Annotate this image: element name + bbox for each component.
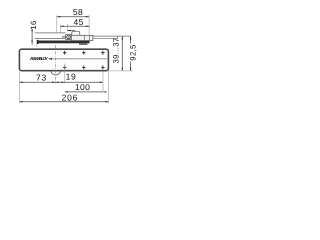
rod end tick [117,36,119,39]
svg-text:39...37: 39...37 [111,38,120,64]
link nub left of knob [63,36,66,39]
mounting hole cross top-middle [82,51,85,55]
ext line 206 right [108,71,110,103]
mini dim extension [66,24,68,31]
step under bar right [79,43,87,45]
dim 45 extension line left [59,25,61,33]
mounting hole cross top-left [63,51,66,55]
dim 39...37 vertical line [121,36,123,71]
mounting hole cross bottom-right [101,65,104,69]
dim 73/19 chain line [19,81,103,83]
ext line 19 right [64,64,66,84]
arm slide bar dark [37,41,90,44]
shoe foot dome [72,31,80,35]
dim 206 line [19,101,108,103]
ext line 100 right (hole column) [102,71,104,93]
dim 16 vertical line with outside arrows [31,29,33,45]
svg-text:19: 19 [66,72,77,82]
mini dim line at knob [67,30,75,32]
body bottom extension to right dims [108,70,133,72]
knob screw circle [67,35,71,39]
shoe block [71,35,93,40]
dim 100 line [65,91,103,93]
dim 58 extension lines [56,15,58,33]
svg-text:ASSA ABLOY: ASSA ABLOY [29,56,49,61]
svg-text:73: 73 [36,72,47,82]
stub below bar cap [35,45,38,47]
svg-text:58: 58 [73,7,83,17]
knob with screw [66,34,72,39]
ext line body left [18,71,20,103]
svg-text:100: 100 [75,82,90,92]
dim 58 line [57,16,89,18]
piston tube line upper [48,58,107,60]
spindle boss arc under body [51,71,61,75]
arm bar left end cap [37,40,39,44]
frame reference line A [35,32,66,34]
svg-text:16: 16 [29,20,38,29]
dim 45 line [60,25,89,27]
piston line left arrowhead [48,58,52,60]
rod bottom line [93,38,118,40]
dim 92,5 vertical line split by text [130,36,132,43]
svg-text:45: 45 [74,17,84,27]
spindle centerline dash-dot [55,45,57,83]
svg-text:206: 206 [62,93,79,103]
closer body outline [19,49,108,70]
rod top line extended to 92,5 dim [93,35,131,37]
mounting hole cross bottom-left [63,65,66,69]
mounting hole cross bottom-middle [82,65,85,69]
svg-text:92,5: 92,5 [129,44,138,60]
mounting hole cross top-right [101,51,104,55]
rail top line B [35,38,63,40]
